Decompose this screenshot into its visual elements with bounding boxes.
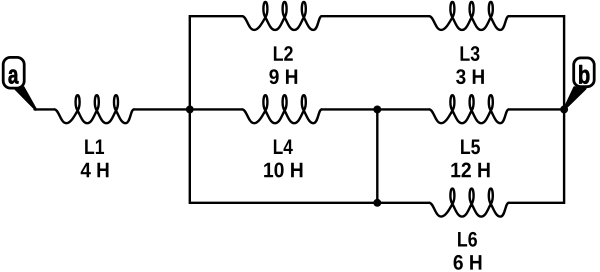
label L1 bbox=[85, 140, 104, 154]
label L4 bbox=[274, 140, 293, 154]
wire: L4 to node n2 bbox=[322, 108, 378, 110]
terminal b: callout box bbox=[574, 58, 595, 87]
wire: L5 to node b bbox=[509, 108, 564, 110]
junction node b bbox=[560, 105, 568, 113]
inductor L2 bbox=[242, 2, 321, 30]
wire: top rail right segment + right vertical + bottom rail right (node b branch) bbox=[509, 16, 564, 203]
terminal a: pointer tail bbox=[13, 87, 36, 110]
wire: L1 to node n1 bbox=[134, 108, 190, 110]
value 10 H (L4) bbox=[264, 163, 302, 178]
value 12 H (L5) bbox=[451, 163, 489, 178]
label L6 bbox=[458, 232, 477, 247]
terminal b: label bbox=[579, 65, 589, 84]
inductor L5 bbox=[429, 95, 508, 123]
label L2 bbox=[274, 46, 293, 61]
terminal b: pointer tail bbox=[564, 88, 585, 110]
value 3 H (L3) bbox=[456, 69, 484, 84]
junction node n2 bbox=[373, 105, 381, 113]
value 9 H (L2) bbox=[269, 69, 297, 84]
wire: top rail middle segment (L2 to L3) bbox=[322, 15, 430, 17]
label L5 bbox=[461, 140, 480, 155]
terminal a: label bbox=[8, 69, 18, 83]
terminal a: callout box bbox=[3, 57, 24, 88]
wire: middle row node n1 to L4 bbox=[190, 108, 243, 110]
wire: top rail left segment + left vertical + bottom rail left (n1 branch) bbox=[190, 16, 377, 203]
wire: terminal a to inductor L1 bbox=[35, 108, 55, 110]
label L3 bbox=[461, 46, 480, 61]
junction node n1 bbox=[186, 105, 194, 113]
wire: bottom rail, node n3 to L6 bbox=[377, 202, 429, 204]
inductor L4 bbox=[242, 95, 321, 123]
junction node n3 (bottom) bbox=[373, 199, 381, 207]
wire: node n2 to L5 bbox=[377, 108, 429, 110]
wire: middle vertical (node n2 down to bottom rail) bbox=[376, 109, 378, 202]
value 4 H (L1) bbox=[81, 163, 109, 177]
inductor L1 bbox=[55, 95, 134, 123]
inductor L6 bbox=[429, 189, 508, 217]
inductor L3 bbox=[429, 2, 508, 30]
value 6 H (L6) bbox=[454, 255, 482, 270]
